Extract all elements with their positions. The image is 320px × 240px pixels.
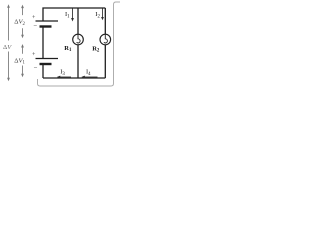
current I2 arrow (102, 9, 104, 18)
wire middle branch lower (77, 45, 79, 78)
wire right branch upper (104, 8, 106, 34)
dV2 up arrow (22, 8, 24, 16)
svg-text:–: – (33, 65, 38, 71)
wire bottom (43, 77, 105, 79)
lamp R1 circle (73, 34, 84, 45)
wire between batteries (42, 27, 44, 59)
total voltage arrow dV (8, 8, 10, 41)
dV1 down arrow (22, 66, 24, 75)
dV1 up arrow (22, 47, 24, 54)
wire right branch lower (104, 45, 106, 78)
lamp R2 circle (100, 34, 111, 45)
svg-text:R2: R2 (92, 45, 100, 53)
current I1 arrow (72, 9, 74, 19)
svg-text:+: + (32, 15, 36, 21)
lamp R1 filament (77, 34, 81, 43)
svg-text:+: + (32, 52, 36, 58)
svg-text:I2: I2 (95, 11, 100, 19)
svg-text:ΔV1: ΔV1 (14, 57, 25, 65)
current I4 arrow (bottom middle segment) (85, 76, 98, 78)
svg-text:I3: I3 (60, 68, 65, 76)
current I3 arrow (bottom left segment) (60, 76, 71, 78)
figure panel frame (38, 2, 121, 86)
svg-text:ΔV: ΔV (3, 44, 12, 51)
dV2 down arrow (22, 28, 24, 35)
battery B1 (bottom) negative plate (40, 63, 52, 65)
wire battery2 to bottom (42, 65, 44, 79)
svg-text:–: – (33, 22, 38, 28)
wire top: battery to right branch (43, 8, 105, 21)
wire middle branch upper (77, 8, 79, 34)
svg-text:ΔV2: ΔV2 (14, 19, 25, 27)
svg-text:I4: I4 (86, 68, 91, 76)
svg-text:I1: I1 (65, 11, 70, 19)
lamp R2 filament (104, 34, 108, 43)
battery B1 (bottom) positive plate (36, 58, 59, 60)
svg-text:R1: R1 (64, 45, 72, 53)
battery B2 (top) negative plate (40, 25, 52, 27)
battery B2 (top) positive plate (36, 20, 59, 22)
